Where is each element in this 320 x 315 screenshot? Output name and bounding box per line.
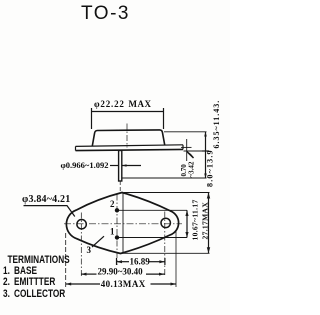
pin 1 leader line [119, 237, 187, 239]
extension line from flange bottom to right [184, 150, 207, 152]
pin 2 dot [115, 208, 119, 212]
pin 2 label [110, 199, 115, 209]
svg-text:φ22.22: φ22.22 [94, 99, 125, 109]
rotated label 6.35~11.43 [206, 100, 222, 187]
pin (side view) [119, 151, 122, 182]
right vertical dimension line (heights) [202, 132, 209, 178]
svg-text:29.90~30.40: 29.90~30.40 [98, 267, 144, 277]
extension line pin bottom to right [123, 177, 207, 179]
svg-text:2: 2 [110, 199, 115, 209]
svg-text:MAX: MAX [129, 99, 152, 109]
svg-text:~3.42: ~3.42 [188, 161, 196, 177]
flange (side view) [76, 145, 184, 151]
dimension 29.90~30.40 [81, 267, 165, 277]
right hole vertical centerline extension [164, 212, 166, 278]
svg-text:10.67~11.17: 10.67~11.17 [191, 199, 200, 240]
dimension 40.13MAX [66, 279, 176, 289]
cap outline (can top) [92, 130, 164, 146]
svg-text:φ0.966~1.092: φ0.966~1.092 [61, 160, 109, 170]
dimension line phi22.22 [92, 108, 164, 129]
dimension label phi22.22 MAX [94, 99, 152, 109]
svg-text:3: 3 [87, 245, 92, 255]
dimension 0.70~3.42 vertical line [181, 139, 194, 161]
svg-text:16.89: 16.89 [130, 256, 151, 266]
title TO-3 [0, 3, 211, 25]
pin centerline below [119, 181, 121, 192]
dimension 16.89 [117, 256, 165, 266]
horizontal centerline through holes [64, 223, 182, 225]
svg-text:1: 1 [110, 227, 115, 237]
svg-text:φ3.84~4.21: φ3.84~4.21 [22, 194, 70, 205]
right mounting hole [161, 218, 170, 227]
svg-text:27.17MAX: 27.17MAX [201, 202, 210, 240]
rotated label 10.67~11.17 [191, 199, 200, 240]
pin 1 dot [115, 235, 119, 239]
dimension 10.67~11.17 vertical [185, 210, 188, 237]
left mounting hole [77, 220, 86, 229]
pin axis line [116, 195, 118, 266]
dimension 27.17MAX extension lines [124, 192, 210, 194]
rotated label 27.17MAX [201, 202, 210, 240]
left hole vertical centerline extension [80, 213, 82, 278]
svg-text:8.0~13.9: 8.0~13.9 [206, 149, 215, 187]
extension line from cap top to right [164, 131, 207, 133]
label 3 with leader [87, 236, 105, 255]
label phi0.966~1.092 with leader [61, 160, 142, 170]
cap centerline [126, 124, 128, 148]
package outline (diamond with lobes) [66, 193, 178, 254]
dimension 27.17MAX vertical line [207, 193, 210, 254]
rotated label 0.70~3.42 [180, 161, 196, 177]
terminations text block [3, 255, 70, 300]
pin 2 leader line [119, 209, 187, 211]
label phi3.84~4.21 with leader [22, 194, 75, 217]
svg-text:40.13MAX: 40.13MAX [101, 279, 146, 289]
vertical centerline of package [122, 193, 124, 254]
dimension 40.13MAX extension lines [65, 233, 67, 287]
pin 1 label [110, 227, 115, 237]
svg-text:6.35~11.43.: 6.35~11.43. [212, 100, 221, 149]
